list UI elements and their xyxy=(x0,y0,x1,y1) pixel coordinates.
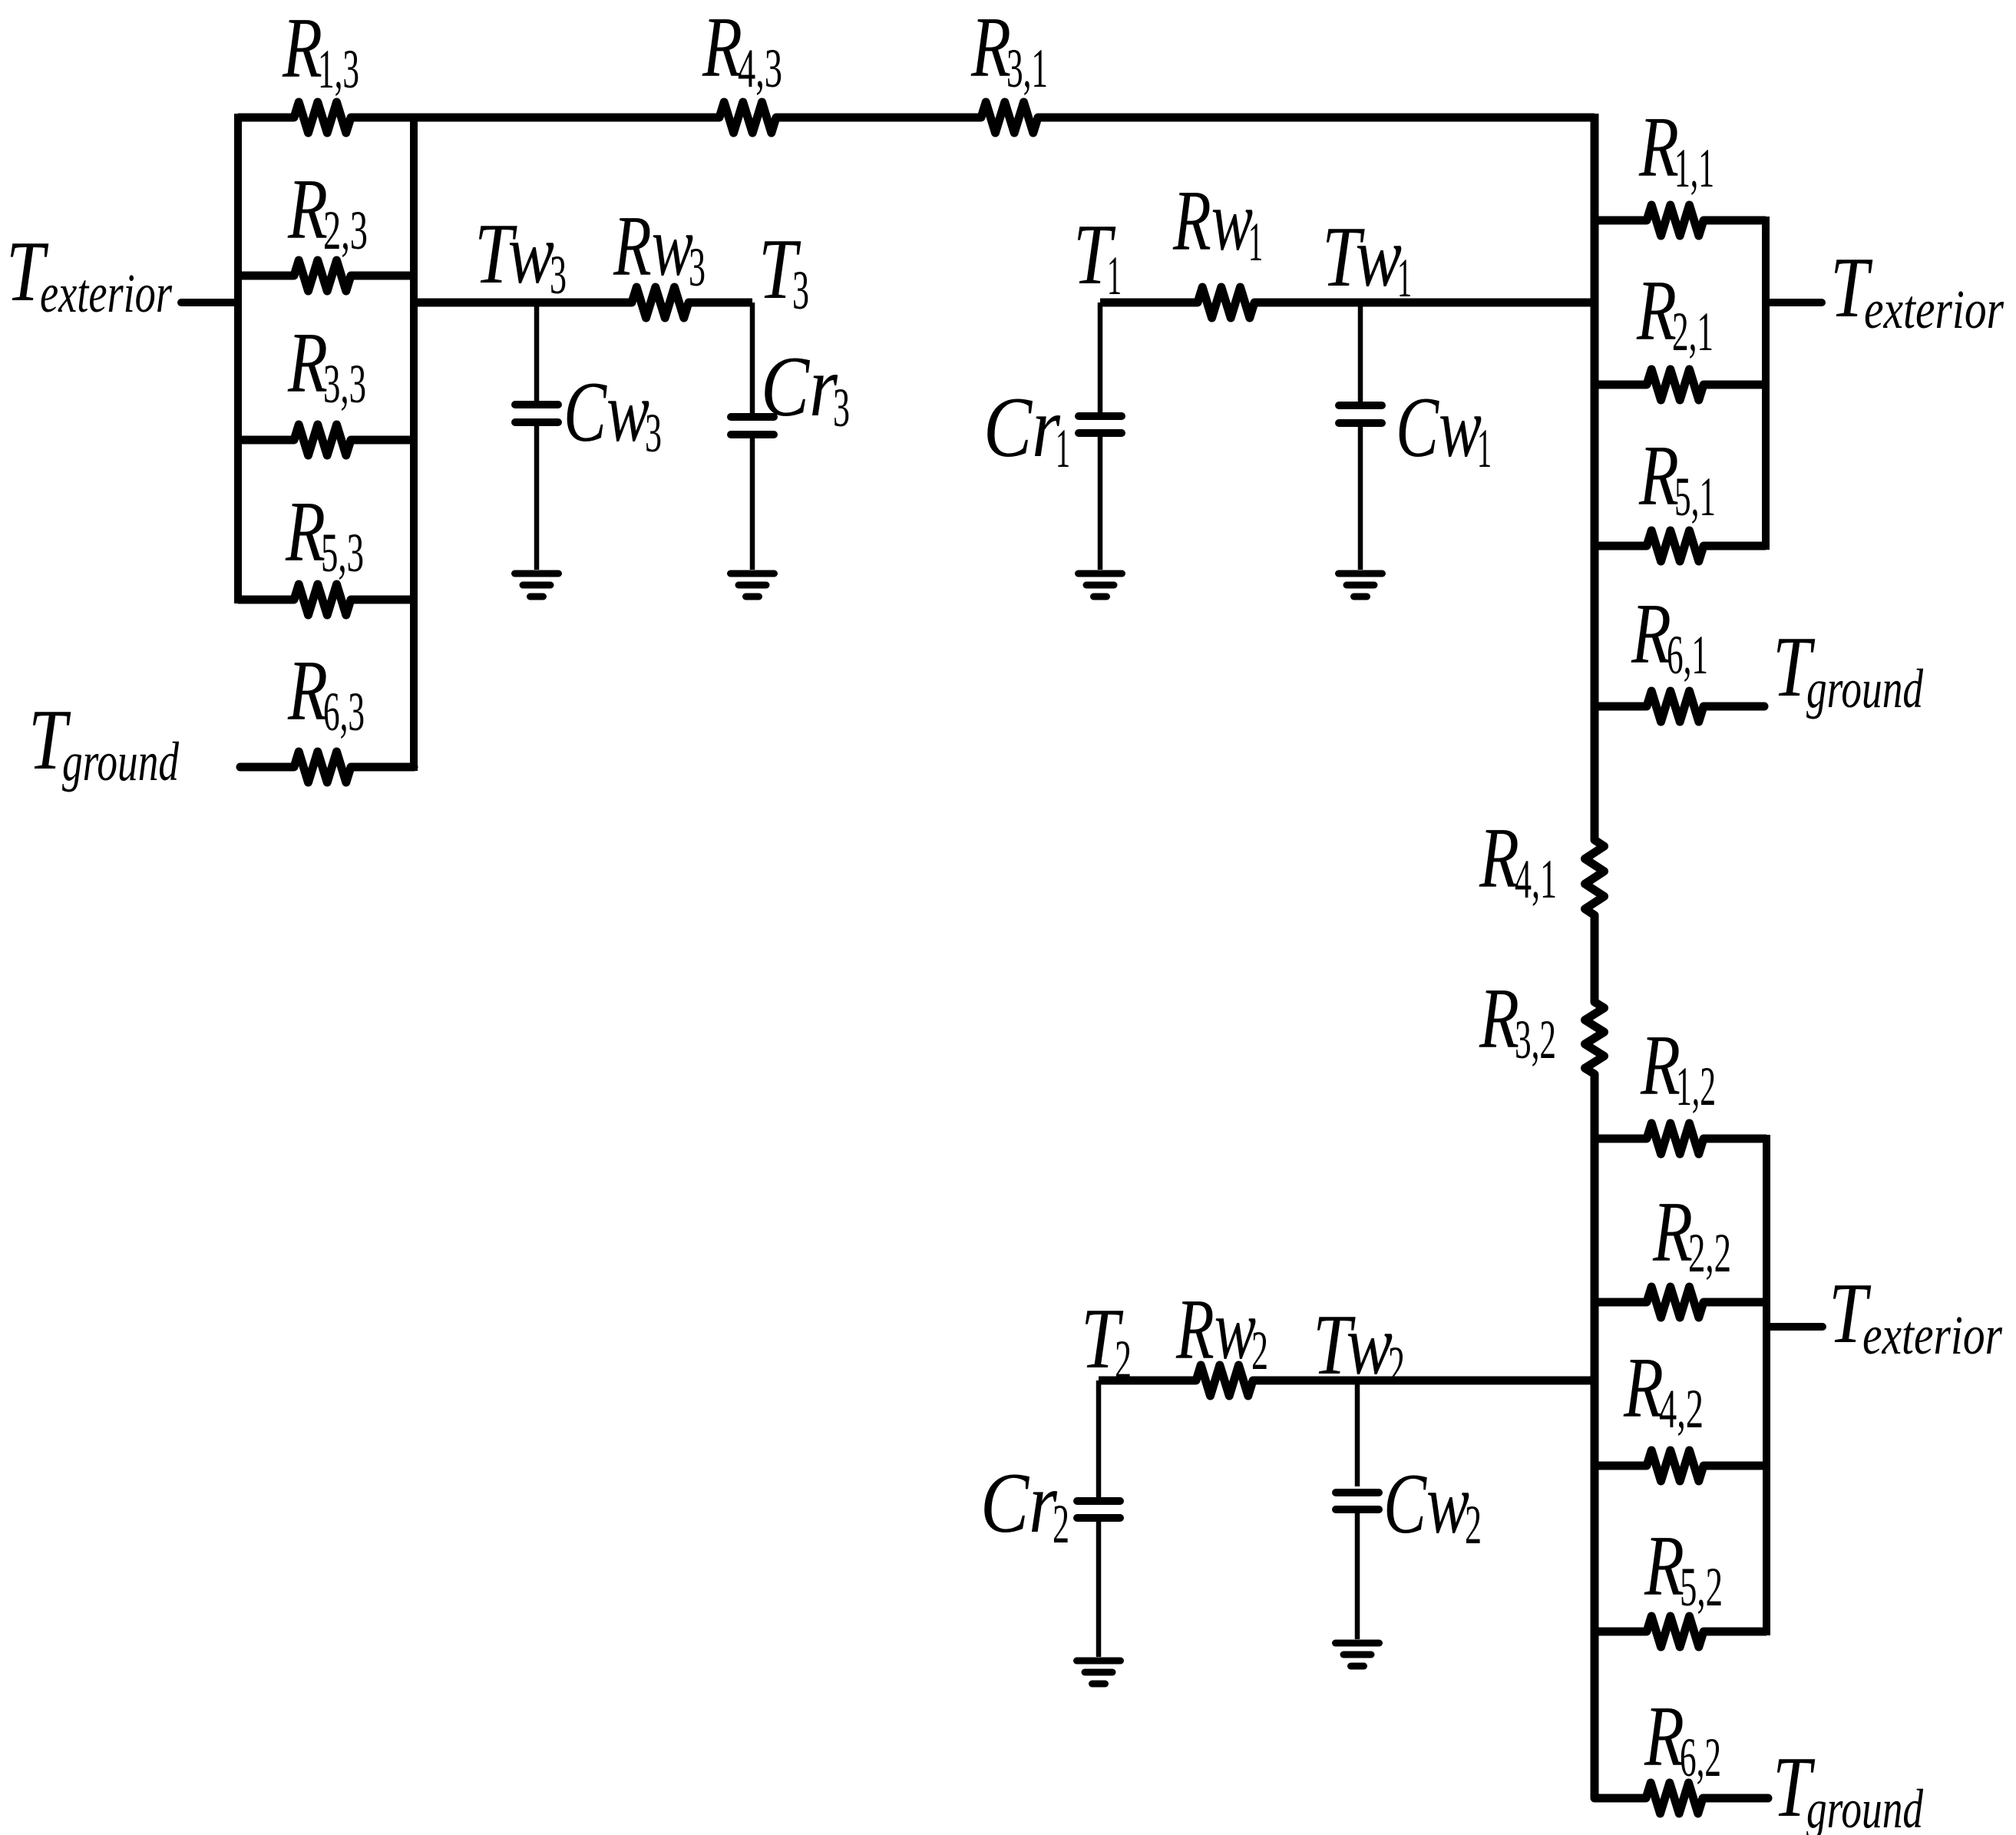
label T_exterior top right xyxy=(1830,240,2004,340)
label R6,2 xyxy=(1644,1689,1721,1788)
ground under Cr2 xyxy=(1077,1661,1121,1684)
label T_ground top right xyxy=(1773,620,1924,719)
svg-text:Cw3: Cw3 xyxy=(563,365,662,464)
resistor R1,1 xyxy=(1595,205,1766,236)
wire: bottom-right ladder right rail xyxy=(1763,1135,1770,1635)
capacitor Cw1 xyxy=(1339,405,1382,423)
capacitor Cw2 xyxy=(1336,1493,1379,1509)
label Tw1 xyxy=(1322,210,1412,309)
resistor R6,1 xyxy=(1595,691,1764,722)
wire: Cr2 to ground xyxy=(1096,1522,1102,1657)
resistor R2,2 xyxy=(1595,1287,1766,1318)
label R4,1 xyxy=(1479,811,1557,910)
label R5,3 xyxy=(285,484,364,584)
svg-text:Cr2: Cr2 xyxy=(980,1456,1069,1555)
resistor R4,2 xyxy=(1595,1450,1766,1481)
wire: Tw1 node to Cw1 xyxy=(1358,303,1363,402)
svg-text:Cw1: Cw1 xyxy=(1396,380,1492,479)
label T2 xyxy=(1081,1291,1132,1390)
resistor R1,2 xyxy=(1595,1123,1766,1154)
label R6,3 xyxy=(287,643,365,742)
wire: top bus with resistors R1,3 R4,3 R3,1 xyxy=(238,102,1595,133)
label R1,1 xyxy=(1638,100,1714,199)
ground under Cr1 xyxy=(1079,574,1122,597)
label Rw1 xyxy=(1172,174,1263,273)
capacitor Cr2 xyxy=(1077,1501,1120,1518)
label Rw3 xyxy=(613,199,706,298)
label T1 xyxy=(1073,207,1122,306)
resistor R5,1 xyxy=(1595,531,1766,561)
wire: main right rail with resistors R4,1 and R3,2 xyxy=(1585,114,1605,1798)
wire: Cw3 to ground xyxy=(534,426,540,570)
wire: T2-Tw2 node wire with resistor Rw2 xyxy=(1099,1365,1595,1396)
wire: Cr3 to ground xyxy=(750,438,755,570)
label Rw2 xyxy=(1175,1282,1268,1381)
svg-text:Cr3: Cr3 xyxy=(761,339,850,438)
capacitor Cw3 xyxy=(515,405,558,422)
label R5,2 xyxy=(1644,1519,1723,1618)
resistor R2,1 xyxy=(1595,369,1766,400)
svg-text:Tw2: Tw2 xyxy=(1313,1298,1405,1397)
resistor R6,2 xyxy=(1595,1783,1768,1814)
svg-text:Cr1: Cr1 xyxy=(983,380,1070,479)
wire: Cw2 to ground xyxy=(1355,1512,1360,1639)
wire: left ladder right rail xyxy=(410,114,418,771)
ground under Cw3 xyxy=(515,574,559,597)
resistor R3,3 xyxy=(238,425,414,455)
wire: T_exterior lead (left) xyxy=(181,299,238,306)
label Tw2 xyxy=(1313,1298,1405,1397)
wire: T_exterior lead (bottom right) xyxy=(1766,1323,1823,1331)
label R1,3 xyxy=(282,1,359,100)
wire: Cw1 to ground xyxy=(1358,427,1363,570)
label R3,3 xyxy=(287,316,366,415)
resistor R6,3 xyxy=(240,752,414,782)
label T_exterior left xyxy=(6,224,173,324)
label T3 xyxy=(758,222,809,321)
capacitor Cr1 xyxy=(1079,416,1122,433)
label Cw1 xyxy=(1396,380,1492,479)
wire: T2 node to Cr2 xyxy=(1096,1380,1102,1497)
wire: T3 node to Cr3 xyxy=(750,303,755,413)
svg-text:Rw3: Rw3 xyxy=(613,199,706,298)
wire: Tw3 node to Cw3 xyxy=(534,303,540,402)
label T_ground bottom right xyxy=(1773,1740,1924,1835)
resistor R2,3 xyxy=(238,260,414,291)
capacitor Cr3 xyxy=(731,417,774,435)
wire: left ladder left rail xyxy=(234,114,242,603)
label T_ground left xyxy=(28,693,180,792)
resistor R5,3 xyxy=(238,584,414,615)
label T_exterior bottom right xyxy=(1829,1266,2003,1366)
label Cr1 xyxy=(983,380,1070,479)
label R3,2 xyxy=(1479,971,1556,1070)
label R2,1 xyxy=(1636,263,1714,362)
svg-text:Cw2: Cw2 xyxy=(1383,1456,1482,1556)
label Cw3 xyxy=(563,365,662,464)
label R5,1 xyxy=(1638,428,1716,527)
label R2,2 xyxy=(1652,1185,1731,1284)
label Cr3 xyxy=(761,339,850,438)
label R4,2 xyxy=(1623,1341,1704,1440)
wire: Tw2 node to Cw2 xyxy=(1355,1380,1360,1486)
svg-text:Rw1: Rw1 xyxy=(1172,174,1263,273)
wire: top-right ladder right rail xyxy=(1762,217,1770,550)
wire: Tw3 node wire with resistor Rw3 xyxy=(414,287,752,318)
wire: T1 node to Cr1 xyxy=(1098,303,1103,412)
svg-text:Tw1: Tw1 xyxy=(1322,210,1412,309)
label Tw3 xyxy=(474,207,567,306)
wire: Cr1 to ground xyxy=(1098,437,1103,570)
svg-text:Tw3: Tw3 xyxy=(474,207,567,306)
svg-text:Rw2: Rw2 xyxy=(1175,1282,1268,1381)
wire: T_exterior lead (top right) xyxy=(1766,299,1822,306)
ground under Cw2 xyxy=(1336,1643,1380,1666)
label R3,1 xyxy=(970,0,1048,99)
label R6,1 xyxy=(1631,587,1708,686)
wire: T1-Tw1 node wire with resistor Rw1 xyxy=(1100,287,1595,318)
ground under Cr3 xyxy=(731,574,775,597)
ground under Cw1 xyxy=(1339,574,1383,597)
resistor R5,2 xyxy=(1595,1616,1766,1647)
label R4,3 xyxy=(702,0,782,99)
label Cw2 xyxy=(1383,1456,1482,1556)
label R1,2 xyxy=(1640,1018,1716,1117)
label R2,3 xyxy=(287,162,368,261)
label Cr2 xyxy=(980,1456,1069,1555)
